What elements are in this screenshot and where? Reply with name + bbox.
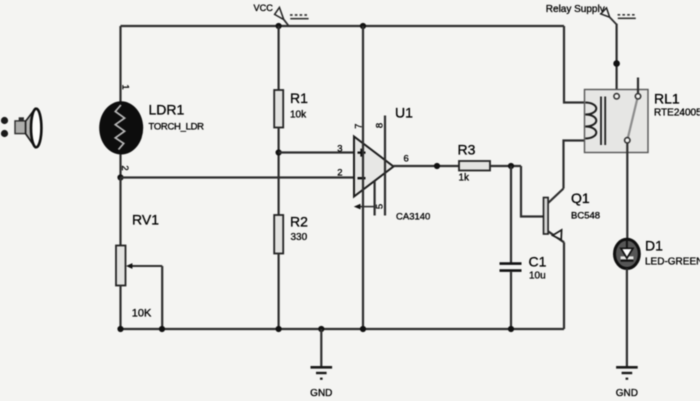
wire junction down to C1 [510, 166, 512, 263]
node wire2 tap [117, 174, 123, 180]
potentiometer RV1 [116, 212, 162, 320]
LDR LDR1 [99, 84, 204, 170]
svg-text:TORCH_LDR: TORCH_LDR [149, 122, 205, 133]
wire op-amp output to R3 [394, 165, 460, 167]
svg-text:10u: 10u [529, 271, 546, 282]
wire inverting input (pin 2) [121, 176, 355, 178]
wire Q1 collector up to relay coil [564, 141, 586, 189]
ground (middle) [310, 329, 332, 399]
svg-text:U1: U1 [395, 105, 413, 121]
resistor R3 [458, 142, 491, 184]
wire bottom rail [121, 328, 565, 330]
svg-text:RV1: RV1 [132, 212, 159, 228]
wire junction to Q1 base [521, 166, 544, 217]
wire RV1 bottom to rail [119, 286, 121, 330]
svg-text:C1: C1 [529, 254, 547, 270]
svg-text:10K: 10K [132, 308, 152, 320]
wire VCC down to R1 [278, 26, 280, 90]
svg-text:2: 2 [337, 168, 342, 179]
svg-text:RTE24005F: RTE24005F [654, 108, 700, 119]
svg-text:Q1: Q1 [571, 190, 590, 206]
svg-text:8: 8 [375, 123, 386, 128]
svg-text:VCC: VCC [254, 3, 274, 13]
wire node down to RV1 [119, 178, 121, 246]
node on relay supply wire [613, 60, 620, 67]
node VCC junction [276, 23, 282, 29]
svg-text:RL1: RL1 [654, 91, 680, 107]
wire R3 to junction [490, 165, 521, 167]
svg-text:R3: R3 [458, 142, 476, 158]
node R2 on rail [276, 326, 282, 332]
resistor R1 [274, 90, 308, 128]
op-amp U1 [337, 26, 430, 329]
svg-text:5: 5 [375, 204, 386, 209]
svg-text:R2: R2 [290, 214, 308, 230]
ground (right) [616, 367, 638, 399]
wire relay supply down to contact [615, 24, 617, 94]
power VCC [254, 3, 310, 26]
resistor R2 [274, 214, 308, 254]
svg-text:1k: 1k [459, 173, 471, 184]
node C1 on rail [508, 326, 514, 332]
wire RV1 wiper drop [161, 266, 163, 329]
svg-text:GND: GND [310, 388, 332, 399]
node ground tap on rail [318, 326, 324, 332]
node output wire [434, 163, 440, 169]
wire left vertical top rail to LDR [119, 26, 121, 102]
wire Q1 emitter down to rail [563, 242, 565, 329]
svg-text:10k: 10k [290, 110, 307, 121]
svg-text:6: 6 [404, 154, 409, 165]
node wiper on rail [159, 326, 165, 332]
wire C1 bottom to rail [510, 272, 512, 329]
relay RL1 [585, 78, 700, 153]
wire top rail right drop to relay coil top [564, 26, 585, 103]
svg-text:LDR1: LDR1 [149, 102, 185, 118]
svg-text:1: 1 [120, 84, 131, 89]
svg-text:3: 3 [337, 144, 342, 155]
wire non-inverting input (pin 3) [279, 151, 354, 153]
node rail left [117, 326, 123, 332]
svg-text:330: 330 [291, 232, 308, 243]
wire R2 bottom to rail [278, 254, 280, 330]
power Relay Supply [546, 4, 637, 25]
wire LDR bottom to node [119, 155, 121, 178]
node pin7 junction on top rail [360, 23, 366, 29]
wire relay contact down to LED [626, 143, 628, 240]
node R3 output junction [508, 163, 514, 169]
svg-text:CA3140: CA3140 [396, 212, 430, 223]
node pin4 on rail [360, 326, 366, 332]
wire top rail [121, 25, 565, 27]
transistor Q1 [544, 189, 601, 243]
wire LED to ground [626, 269, 628, 368]
wire R1 bottom to R2 top [278, 128, 280, 216]
diode D1 LED [615, 238, 700, 269]
svg-text:BC548: BC548 [571, 211, 600, 222]
svg-text:Relay Supply: Relay Supply [546, 4, 605, 15]
capacitor C1 [500, 254, 547, 282]
svg-text:R1: R1 [290, 90, 308, 106]
svg-text:D1: D1 [645, 238, 663, 254]
torch light source icon [1, 109, 42, 148]
svg-text:7: 7 [353, 124, 364, 129]
svg-text:GND: GND [616, 388, 638, 399]
svg-text:LED-GREEN: LED-GREEN [645, 257, 700, 268]
node non-inverting tap [276, 149, 282, 155]
